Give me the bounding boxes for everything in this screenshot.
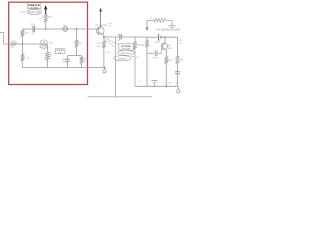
callout pointer line (39, 15, 45, 19)
svg-text:16V: 16V (62, 60, 66, 63)
wire loop left top (67, 56, 69, 60)
wire loop top (68, 55, 82, 57)
wire R2 to node A (22, 37, 24, 45)
resistor R1 (44, 15, 48, 23)
wire C2 to rail (67, 61, 69, 67)
wire R11 to C5 (177, 64, 179, 72)
svg-text:AA112 Ge: AA112 Ge (29, 11, 41, 14)
cap label bottom right (168, 82, 172, 85)
C2 label (62, 58, 67, 64)
Q2 label (168, 44, 173, 50)
callout ellipse label (27, 9, 41, 14)
resistor R5 (80, 56, 84, 63)
capacitor C2 plates (65, 59, 70, 61)
wire R12 to rail (47, 60, 49, 68)
wire R9 down (146, 47, 148, 86)
mid callout ellipse 2 (114, 56, 131, 61)
wire chain down (47, 44, 49, 52)
svg-text:Q1 2N3904: Q1 2N3904 (95, 24, 108, 27)
svg-text:ohm: ohm (97, 45, 101, 48)
svg-text:out: out (109, 22, 113, 25)
left mid ellipse 1 (40, 40, 47, 44)
resistor R2 (21, 30, 25, 37)
junction Q2 collector (164, 36, 166, 38)
wire emitter down (103, 35, 105, 41)
wire battery right (161, 36, 177, 38)
wire battery left (147, 36, 158, 38)
wire arrow to R8 (147, 19, 154, 21)
wire loop right top (81, 55, 83, 58)
junction emitter (103, 36, 105, 38)
wire base branch (147, 52, 154, 54)
wire bottom rail (135, 85, 178, 87)
wire C5 to rail (177, 74, 179, 87)
wire R4 to loop (76, 47, 78, 55)
arrow down annotation (146, 20, 149, 31)
svg-text:10n: 10n (31, 23, 36, 26)
resistor R12 (46, 52, 50, 60)
svg-text:or: or (50, 52, 52, 55)
wire bus corner (22, 28, 24, 31)
wire R3 to rail (22, 61, 24, 67)
capacitor C1 plates (33, 26, 35, 33)
resistor R6 (102, 41, 106, 48)
junction rail (104, 67, 106, 69)
tick x135 (131, 56, 135, 58)
L1 label (63, 24, 67, 27)
wire R8 right (166, 20, 173, 25)
wire C4 to base (157, 49, 161, 54)
R12 value (49, 55, 52, 58)
wire Q2 emitter (165, 50, 167, 57)
svg-text:2N3904: 2N3904 (118, 57, 127, 60)
terminal stub (104, 68, 106, 70)
small ground top (168, 26, 175, 28)
wire R1 to bus (45, 22, 47, 29)
lamp L1 (63, 27, 68, 32)
wire R9 top (146, 37, 148, 40)
wire right chain top (177, 37, 179, 56)
wire bias down (76, 29, 78, 40)
resistor R11 (176, 56, 180, 64)
ground mid (152, 81, 158, 87)
wire R7 down (134, 49, 136, 86)
capacitor C4 plates (155, 51, 157, 57)
svg-text:tuned: tuned (20, 10, 26, 13)
antenna arrow (99, 8, 102, 12)
mid callout box (119, 44, 134, 51)
callout box label (27, 3, 41, 10)
R10 value (168, 59, 173, 62)
pointer lines mid (105, 39, 119, 47)
R11 value (180, 59, 185, 62)
C1 label bottom (31, 33, 35, 36)
wire ground rail (23, 67, 105, 69)
terminal circle (103, 70, 106, 73)
R5 value (83, 57, 88, 63)
R1 value (48, 16, 53, 19)
left mid box left text (50, 52, 52, 55)
svg-text:100n: 100n (152, 57, 158, 60)
wire R5 to rail (81, 64, 83, 68)
wire emitter bus2 (104, 36, 147, 38)
B1 label (155, 41, 160, 44)
wire node A down (22, 44, 24, 54)
svg-text:1%: 1% (83, 60, 86, 63)
left mid callout box (55, 49, 65, 54)
left mid ellipse 2 (40, 45, 48, 49)
R2 value (25, 32, 30, 35)
plus sign (140, 80, 142, 84)
wire rail left breadboard (115, 37, 117, 97)
battery B1 (159, 34, 161, 41)
C4 label (152, 57, 158, 60)
svg-text:alt: alt (179, 42, 182, 45)
wire node A right (23, 43, 48, 45)
Rin label bottom (11, 46, 14, 49)
svg-text:BC548B: BC548B (121, 45, 131, 48)
cap label bottom right 2 (175, 81, 179, 84)
capacitor C5 plates (175, 72, 180, 74)
right chain text (179, 39, 182, 45)
R4 value (78, 42, 81, 45)
transistor Q2 (161, 43, 167, 50)
net label left (109, 22, 113, 28)
resistor R7 (133, 42, 137, 50)
resistor R10 (164, 57, 168, 64)
resistor R8 (154, 19, 166, 22)
svg-text:For BREADBOARD: For BREADBOARD (156, 28, 180, 31)
svg-text:100n: 100n (117, 34, 123, 37)
svg-text:100: 100 (97, 42, 102, 45)
svg-text:ant: ant (109, 24, 112, 27)
C3 label top (117, 34, 123, 37)
svg-text:47k: 47k (48, 16, 53, 19)
R7 mid label (136, 56, 139, 59)
resistor Rin (11, 43, 17, 46)
wire base bus (23, 28, 97, 30)
red highlight box (9, 2, 88, 84)
mid callout ellipse 1 (118, 50, 135, 55)
svg-text:Schottky: Schottky (29, 6, 39, 9)
wire from left edge (0, 33, 11, 45)
svg-text:1M: 1M (78, 42, 81, 45)
capacitor C3 plates (120, 34, 122, 39)
antenna wire (100, 11, 102, 27)
Q1 label (95, 24, 108, 27)
C1 label top (31, 23, 36, 26)
wire Q2 collector (164, 37, 166, 43)
wire R6 to rail (103, 48, 105, 67)
left mid ellipse text (48, 41, 53, 44)
resistor R4 (75, 40, 79, 47)
wire Rin to node (17, 43, 23, 45)
terminal stub right (177, 86, 179, 89)
R8 label (150, 17, 153, 20)
junction bias (76, 28, 78, 30)
C3 label bottom (117, 39, 121, 42)
svg-text:trim: trim (58, 51, 62, 54)
junction base bus (45, 28, 47, 30)
Rin label top (11, 40, 16, 43)
resistor R9 (145, 40, 149, 47)
Q2 top label (157, 39, 161, 42)
svg-text:25V: 25V (175, 81, 179, 84)
transistor Q1 (96, 27, 104, 35)
junction node A (22, 43, 24, 45)
svg-text:9V: 9V (179, 39, 182, 42)
terminal circle right (177, 90, 180, 93)
R3 value (25, 57, 30, 60)
R7 value (137, 44, 142, 47)
R6 value (97, 42, 102, 48)
plus sign 2 (163, 81, 165, 84)
resistor R3 (21, 54, 25, 61)
svg-text:xtal: xtal (63, 24, 67, 27)
wire bottom long (88, 96, 153, 98)
svg-text:BC: BC (168, 44, 172, 47)
wire R10 to rail (165, 64, 167, 87)
R9 value (141, 44, 146, 47)
wire R7 top (134, 37, 136, 42)
breadboard text (156, 28, 180, 31)
svg-text:2N2222A: 2N2222A (121, 52, 131, 55)
Vcc arrow (44, 5, 47, 15)
mid callout left text (107, 51, 111, 54)
junction R10 rail (165, 85, 167, 87)
callout left text (20, 10, 26, 13)
svg-text:4.7k: 4.7k (25, 57, 30, 60)
